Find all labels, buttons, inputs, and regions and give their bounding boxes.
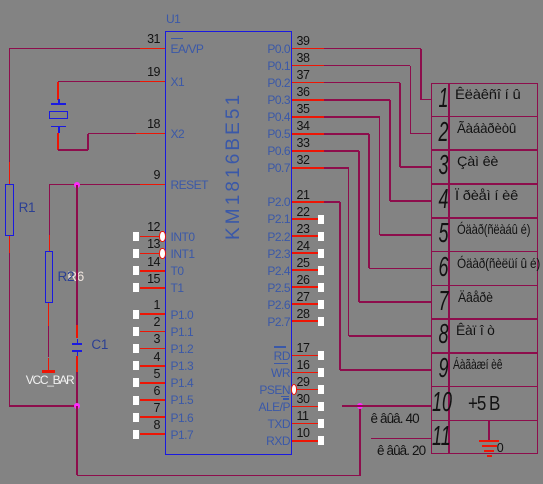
pin 24 P2.3 (292, 252, 318, 254)
pin 36 P0.3 (292, 99, 325, 101)
wire EA/VP to R1 top horizontal (9, 48, 140, 50)
resistor R2 top stub (49, 235, 51, 252)
crystal ZQ1 bottom plate (51, 126, 66, 128)
pin 32 P0.7 (292, 167, 325, 169)
crystal ZQ1 body (49, 111, 67, 120)
wire crystal-bottom to X2: horizontal low (58, 149, 88, 151)
node B junction dot bottom-left (74, 403, 80, 409)
IC U1 KM1816BE51 body (165, 31, 292, 455)
resistor R2 ghost label (67, 270, 84, 285)
resistor R2 bottom stub (48, 303, 50, 326)
wire R2 to VCC vertical (48, 326, 50, 358)
table row 5 Óäàð(ñëàáû é) (438, 219, 449, 247)
capacitor C1 bottom tick (77, 352, 79, 356)
pin 15 T1 (140, 287, 165, 289)
pin 35 P0.4 (292, 116, 325, 118)
table row 10 +5 B (432, 388, 443, 416)
capacitor C1 top stub (76, 325, 78, 338)
ground bar 2 (482, 445, 498, 447)
pin 12 INT0 (140, 236, 165, 238)
ground symbol stub (488, 420, 490, 441)
table row 6 Óäàð(ñèëüí û é) (438, 253, 449, 281)
wire pin 38 P0.1 to row 2 (324, 65, 410, 67)
resistor R1 bottom stub (9, 236, 11, 254)
pin 3 P1.2 (140, 348, 165, 350)
pin 37 P0.2 (292, 82, 325, 84)
crystal ZQ1 top tick (58, 99, 60, 105)
wire pin 21 P2.0 to row 9 (324, 201, 340, 203)
pin 31 EA/VP (140, 48, 165, 50)
resistor R1 top stub (9, 162, 11, 185)
pin 28 P2.7 (292, 320, 318, 322)
table row 11 ground (432, 422, 443, 450)
table row 3 Çàì êè (438, 151, 449, 179)
node C junction dot on ALE/P row-10 wire (357, 403, 363, 409)
pin 2 P1.1 (140, 331, 165, 333)
pin 17 RD (292, 355, 318, 357)
wire pin 37 P0.2 to row 3 (324, 82, 400, 84)
wire RESET to R2 vertical (49, 185, 51, 235)
capacitor C1 bottom stub (76, 356, 78, 372)
wire X1 horizontal (58, 81, 140, 83)
resistor R2 label (58, 270, 75, 285)
pin 13 INT1 (140, 253, 165, 255)
wire bottom bus right vertical (359, 406, 361, 475)
IC part name vertical text KM1816BE51 (224, 95, 245, 240)
table row 7 Äâåðè (438, 287, 449, 315)
capacitor C1 label (91, 338, 108, 353)
pin 14 T0 (140, 270, 165, 272)
pin 29 PSEN (292, 389, 318, 391)
pin 5 P1.4 (140, 382, 165, 384)
wire left vertical above R1 (9, 48, 11, 163)
pin 6 P1.5 (140, 399, 165, 401)
wire pin 33 P0.6 to row 7 (324, 150, 359, 152)
ground bar 3 (484, 450, 494, 452)
crystal bottom stub (57, 133, 59, 150)
pin 25 P2.4 (292, 269, 318, 271)
pin 19 X1 (140, 81, 165, 83)
label k vyv. 40 (371, 412, 419, 427)
pin 33 P0.6 (292, 150, 325, 152)
wire RESET horizontal (49, 184, 140, 186)
wire pin 39 P0.0 to row 1 (324, 48, 421, 50)
wire node A down to C1 (76, 185, 78, 326)
capacitor C1 top tick (77, 339, 79, 343)
resistor R1 (5, 184, 14, 236)
pin 18 X2 (140, 133, 165, 135)
ground symbol bottom tick (487, 455, 492, 457)
capacitor C1 top plate (72, 343, 82, 345)
pin 1 P1.0 (140, 313, 165, 315)
pin 11 TXD (292, 423, 318, 425)
pin 22 P2.1 (292, 218, 318, 220)
label k vyv. 20 (377, 444, 425, 459)
wire to table row 11 (GND) (371, 438, 431, 440)
pin 27 P2.6 (292, 303, 318, 305)
table row 4 Ï ðèåì í èê (438, 185, 449, 213)
ground label 0 (497, 442, 503, 456)
wire pin 35 P0.4 to row 5 (324, 116, 380, 118)
pin 7 P1.6 (140, 416, 165, 418)
pin 34 P0.5 (292, 133, 325, 135)
ground bar 1 (479, 440, 499, 442)
pin 38 P0.1 (292, 65, 325, 67)
pin 4 P1.3 (140, 365, 165, 367)
pin 21 P2.0 (292, 201, 325, 203)
pin 39 P0.0 (292, 48, 325, 50)
pin 9 RESET (140, 184, 165, 186)
wire X2 red segment (136, 133, 165, 135)
wire X2 vertical riser (87, 134, 89, 150)
pin 30 ALE/P (292, 406, 318, 408)
wire left vertical below R1 (9, 253, 11, 407)
power symbol VCC_BAR label (26, 374, 74, 387)
table row 1 Êëàêñî í û (438, 84, 449, 112)
table row 2 Ãàáàðèòû (438, 118, 449, 146)
wire node B down (76, 406, 78, 475)
wire X2 horizontal (88, 133, 137, 135)
wire pin 34 P0.5 to row 6 (324, 133, 369, 135)
pin 26 P2.5 (292, 286, 318, 288)
resistor R1 label (19, 201, 36, 216)
crystal ZQ1 top plate (51, 103, 66, 105)
wire pin 32 P0.7 to row 8 (324, 167, 349, 169)
pin 8 P1.7 (140, 433, 165, 435)
resistor R2 (45, 251, 53, 303)
VCC_BAR stub (48, 358, 50, 372)
power symbol VCC_BAR bar (42, 370, 55, 372)
node A junction dot on RESET wire (74, 182, 80, 188)
wire bottom-left horizontal to node (9, 405, 79, 407)
crystal top stub (57, 82, 59, 100)
wire to table row 10 (+5V) (342, 405, 431, 407)
table row 8 Êàï î ò (438, 320, 449, 348)
table row 9 Áàãàæí èê (438, 354, 449, 382)
pin 23 P2.2 (292, 235, 318, 237)
capacitor C1 bottom plate (72, 350, 82, 352)
pin 16 WR (292, 372, 318, 374)
table grid of signal list (431, 83, 538, 455)
pin 10 RXD (292, 440, 318, 442)
wire bottom bus horizontal (77, 475, 361, 477)
crystal ZQ1 bottom tick (58, 127, 60, 133)
wire pin 36 P0.3 to row 4 (324, 99, 390, 101)
U1 reference label (166, 13, 180, 26)
wire C1 to node B (76, 372, 78, 406)
